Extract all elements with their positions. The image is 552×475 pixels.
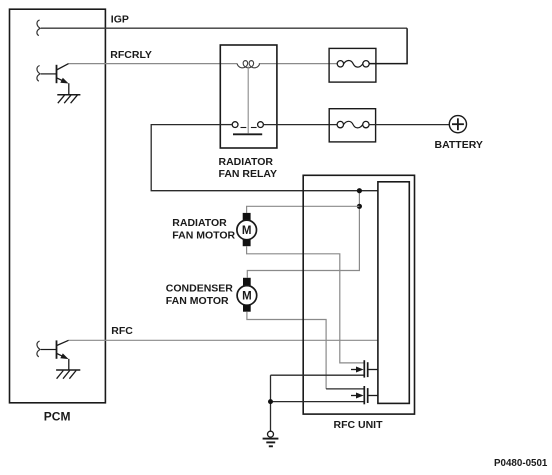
relay K1 plunger line [247, 67, 249, 134]
PCM box [10, 9, 106, 403]
wire radiator motor top to node B [247, 206, 360, 213]
svg-text:M: M [242, 225, 252, 237]
transistor Q3 (RFC unit upper MOSFET) [351, 360, 378, 377]
wire ground drop [270, 375, 272, 431]
relay K1 contact dashes [241, 127, 247, 129]
ground G1 (RFC unit chassis ground) [263, 431, 279, 446]
wire motors supply vertical from node A [247, 191, 359, 278]
fuse F1 box [329, 48, 376, 82]
svg-text:FAN MOTOR: FAN MOTOR [172, 229, 235, 241]
node B junction dot [357, 204, 362, 209]
svg-text:PCM: PCM [44, 410, 71, 424]
svg-text:P0480-0501: P0480-0501 [494, 458, 548, 469]
transistor Q2 (PCM lower, RFC driver) [41, 340, 69, 370]
wire IGP elbow down to fuse1 right [369, 28, 407, 63]
wire condenser motor bottom to transistor Q4 drain [247, 312, 326, 389]
fuse F1 element [337, 61, 343, 67]
wire relay contact loop to RFC unit (node A) [151, 125, 378, 191]
svg-text:RFC: RFC [111, 325, 133, 337]
relay K1 coil [237, 61, 259, 68]
svg-text:RFCRLY: RFCRLY [110, 49, 152, 61]
motor M2 (condenser fan motor) [237, 278, 257, 312]
node A junction dot [357, 188, 362, 193]
transistor Q2 base squiggle (PCM lower) [37, 341, 40, 357]
wire condenser drop to Q4 drain (dark segment) [326, 388, 363, 390]
battery BAT positive terminal [449, 116, 466, 133]
transistor Q1 (PCM upper, RFCRLY driver) [41, 64, 69, 95]
node C junction dot [268, 399, 273, 404]
RFC unit outer box [303, 175, 414, 414]
wire IGP horizontal [41, 27, 407, 29]
svg-text:IGP: IGP [111, 13, 129, 25]
relay K1 box (radiator fan relay) [220, 45, 277, 148]
wire contact left stub [220, 124, 232, 126]
wire RFC from Q2 collector to RFC unit [69, 339, 378, 341]
svg-text:RADIATOR: RADIATOR [219, 156, 274, 168]
relay K1 contact right [258, 122, 264, 128]
fuse F2 box [329, 109, 375, 142]
transistor Q1 base squiggle [37, 66, 40, 82]
svg-text:RFC UNIT: RFC UNIT [334, 419, 384, 431]
wire Q3 source to ground rail [271, 374, 364, 376]
svg-text:BATTERY: BATTERY [435, 139, 483, 151]
RFC unit inner box [378, 182, 409, 404]
svg-text:FAN MOTOR: FAN MOTOR [166, 295, 229, 307]
svg-text:CONDENSER: CONDENSER [166, 283, 234, 295]
svg-text:FAN RELAY: FAN RELAY [219, 168, 278, 180]
fuse F2 element [337, 121, 343, 127]
relay K1 armature bar [233, 133, 262, 135]
svg-text:RADIATOR: RADIATOR [172, 217, 227, 229]
motor M1 (radiator fan motor) [237, 213, 257, 246]
wire relay coil to fuse F1 [259, 63, 338, 65]
relay K1 contact left [232, 122, 238, 128]
svg-text:M: M [242, 291, 252, 303]
transistor Q4 (RFC unit lower MOSFET) [351, 386, 378, 404]
wire RFCRLY from Q1 collector to relay coil [69, 63, 238, 65]
ground (PCM upper transistor emitter) [57, 95, 80, 104]
wire fuse F2 to battery [369, 124, 449, 126]
ground (PCM lower transistor emitter) [56, 370, 80, 379]
wire radiator motor bottom to transistor Q3 drain [247, 246, 364, 363]
wire contact right to fuse F2 [263, 124, 337, 126]
wire Q4 source to ground rail [271, 401, 364, 403]
node IGP squiggle (wire break inside PCM) [37, 20, 40, 36]
